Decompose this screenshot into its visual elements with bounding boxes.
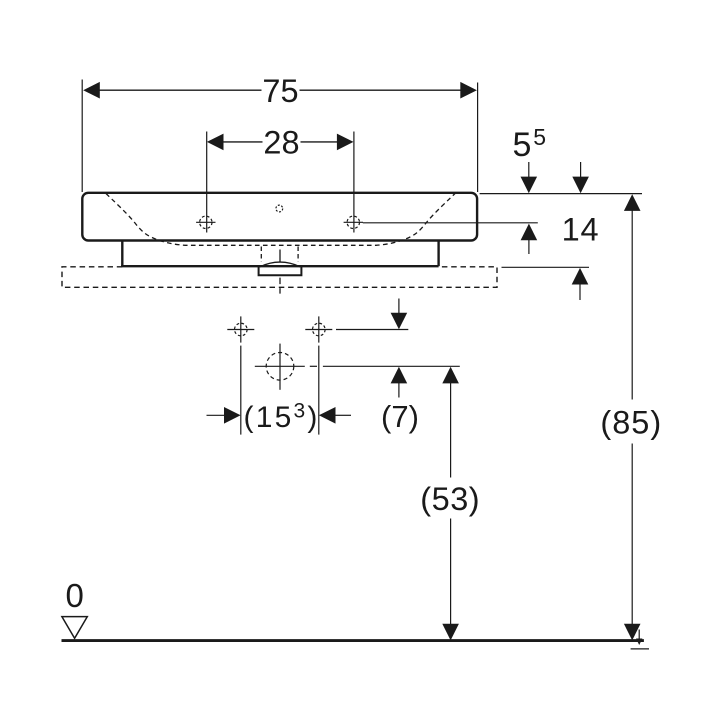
overflow hole [276, 205, 283, 212]
washbasin body outline [82, 193, 477, 241]
svg-text:(7): (7) [381, 399, 419, 434]
bolt line [336, 329, 408, 331]
svg-text:75: 75 [262, 73, 298, 109]
drain center line [279, 250, 281, 294]
bottom reference line C [502, 266, 590, 268]
svg-text:0: 0 [66, 577, 84, 614]
top edge reference line A [480, 193, 642, 195]
furniture dashed rectangle [62, 267, 497, 288]
floor level marker [631, 630, 649, 649]
svg-text:(85): (85) [600, 405, 662, 441]
bolt hole right [305, 316, 332, 342]
bolt hole left [227, 316, 254, 342]
left tap hole [196, 216, 215, 228]
dimension 5.5 label [513, 124, 547, 164]
drain dome [260, 262, 301, 267]
tap hole reference line B [363, 222, 538, 224]
dimension 75 line [83, 82, 477, 99]
bolt extension lines [241, 346, 319, 435]
svg-text:5: 5 [533, 124, 546, 150]
pedestal tier [121, 241, 439, 267]
svg-text:28: 28 [263, 124, 299, 160]
right tap hole [344, 216, 363, 228]
dimension 28 extension lines [207, 132, 354, 233]
dimension 85 line [624, 194, 641, 640]
ground line [62, 639, 644, 642]
drain flange [259, 267, 302, 276]
dimension 5.5 arrows [521, 162, 538, 254]
trap dashed verticals [261, 247, 298, 262]
dimension 53 line [442, 367, 459, 641]
dimension 14 arrows [572, 162, 589, 300]
dimension 7 arrows [391, 299, 408, 398]
basin interior dashed curve [106, 194, 455, 246]
dimension 75 extension lines [82, 80, 477, 193]
datum triangle [62, 617, 87, 639]
dimension 28 line [207, 134, 354, 151]
svg-text:5: 5 [513, 126, 532, 164]
svg-text:(53): (53) [420, 481, 480, 517]
svg-text:14: 14 [562, 211, 600, 247]
dimension 15.3 arrows [207, 407, 352, 424]
svg-text:(153): (153) [244, 400, 320, 435]
drain reference line [255, 365, 460, 367]
drain hole dashed circle [266, 344, 294, 390]
